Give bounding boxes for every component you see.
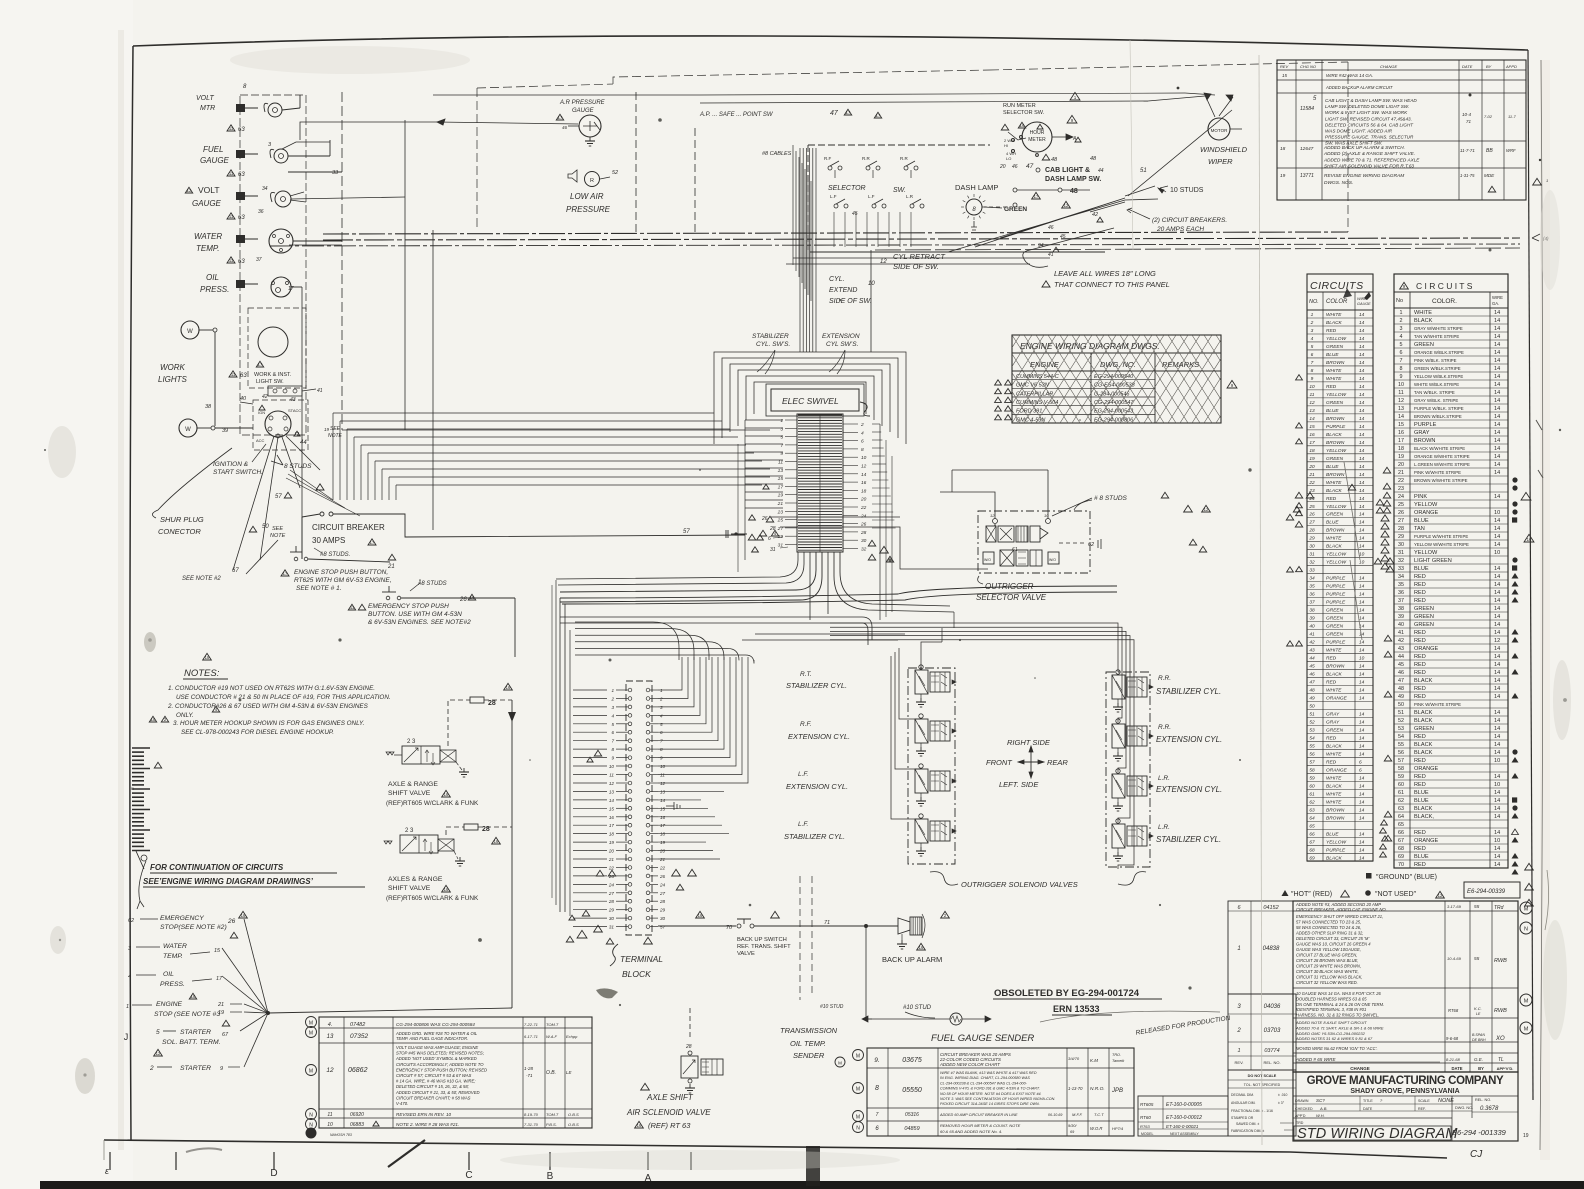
- svg-text:70: 70: [726, 925, 733, 931]
- svg-text:SELECTOR SW.: SELECTOR SW.: [1003, 110, 1045, 116]
- svg-text:R.T.: R.T.: [800, 671, 812, 678]
- wire bundle to right valve box: [830, 623, 1118, 672]
- svg-text:11: 11: [778, 460, 783, 466]
- svg-text:SIDE OF SW.: SIDE OF SW.: [829, 298, 872, 305]
- svg-text:CHANGE: CHANGE: [1380, 64, 1397, 69]
- svg-text:37: 37: [1309, 600, 1315, 606]
- svg-text:ORANGE: ORANGE: [1414, 646, 1439, 652]
- svg-text:PRESS.: PRESS.: [160, 981, 185, 988]
- svg-text:WIPER: WIPER: [1208, 157, 1233, 166]
- RT stabilizer valve: [915, 670, 928, 694]
- backup alarm: [898, 918, 910, 934]
- svg-text:REL. NO.: REL. NO.: [1263, 1060, 1280, 1065]
- svg-text:20: 20: [1308, 464, 1315, 470]
- svg-text:28: 28: [685, 1044, 692, 1050]
- svg-text:50: 50: [1398, 702, 1404, 708]
- svg-text:52: 52: [1398, 718, 1404, 724]
- svg-text:8: 8: [861, 447, 864, 453]
- svg-text:PINK W/WHITE STRIPE: PINK W/WHITE STRIPE: [1414, 702, 1461, 707]
- svg-text:31: 31: [1398, 550, 1404, 556]
- triangles row 22-24 region: [596, 870, 603, 876]
- svg-text:GREEN: GREEN: [1414, 606, 1434, 612]
- svg-text:OUTRIGGER SOLENOID VALVES: OUTRIGGER SOLENOID VALVES: [961, 880, 1078, 889]
- svg-text:FABRICATION DIM. ±: FABRICATION DIM. ±: [1231, 1129, 1264, 1133]
- svg-text:R: R: [131, 786, 134, 791]
- svg-text:W: W: [187, 329, 193, 335]
- svg-text:14: 14: [1494, 542, 1500, 548]
- svg-text:53: 53: [1309, 728, 1315, 734]
- svg-text:WHITE: WHITE: [1326, 751, 1342, 757]
- vertical bundle above swivel: [799, 148, 801, 352]
- svg-text:CYL SW’S.: CYL SW’S.: [826, 341, 859, 348]
- svg-text:6: 6: [768, 536, 771, 542]
- circuits table 2 rows: [1394, 315, 1508, 317]
- svg-text:1: 1: [611, 688, 614, 693]
- svg-text:04859: 04859: [904, 1126, 919, 1132]
- svg-text:R.R.: R.R.: [1158, 675, 1171, 682]
- svg-text:56: 56: [1309, 751, 1315, 757]
- svg-text:LIGHT SW. REVISED CIRCUIT 47,4: LIGHT SW. REVISED CIRCUIT 47,45&43.: [1325, 116, 1412, 121]
- svg-text:16: 16: [1527, 537, 1532, 542]
- svg-text:20: 20: [999, 164, 1006, 170]
- svg-text:22: 22: [608, 866, 615, 871]
- svg-text:N: N: [1524, 927, 1528, 933]
- svg-text:ADDED 70 & 71 SHKT. AXLE & SR-: ADDED 70 & 71 SHKT. AXLE & SR-1 & 66 WIR…: [1295, 1025, 1384, 1030]
- svg-text:BLUE: BLUE: [1414, 518, 1429, 524]
- svg-text:7: 7: [611, 739, 614, 744]
- svg-text:BROWN: BROWN: [1326, 416, 1345, 422]
- svg-text:60: 60: [1398, 782, 1404, 788]
- svg-text:14: 14: [1359, 712, 1365, 718]
- svg-text:VOLT: VOLT: [196, 95, 214, 102]
- svg-text:R.R: R.R: [862, 156, 871, 161]
- svg-text:FUEL GAUGE SENDER: FUEL GAUGE SENDER: [931, 1033, 1034, 1044]
- svg-text:47: 47: [1026, 163, 1034, 170]
- horizontal bus above valves: [560, 616, 862, 618]
- svg-text:13: 13: [778, 468, 784, 474]
- svg-text:CYL RETRACT: CYL RETRACT: [893, 252, 946, 261]
- svg-text:14: 14: [1494, 422, 1500, 428]
- svg-text:TRO.: TRO.: [1112, 1053, 1121, 1057]
- svg-text:12: 12: [156, 1051, 161, 1056]
- svg-text:14: 14: [1359, 847, 1365, 853]
- svg-text:65: 65: [1398, 822, 1404, 828]
- corner curve bundle: [575, 622, 679, 660]
- svg-text:CIRCUIT 29 WHITE WAS B: CIRCUIT 29 WHITE WAS BROWN,: [1296, 964, 1361, 969]
- svg-text:BLUE: BLUE: [1414, 790, 1429, 796]
- svg-text:14: 14: [1494, 574, 1500, 580]
- svg-text:M: M: [1524, 1027, 1529, 1033]
- svg-text:MDE: MDE: [1484, 173, 1495, 178]
- svg-text:7-22-71: 7-22-71: [524, 1022, 538, 1027]
- svg-text:69: 69: [1309, 855, 1315, 861]
- svg-text:TAN W/WHITE STRIPE: TAN W/WHITE STRIPE: [1414, 334, 1459, 339]
- svg-text:14: 14: [1494, 406, 1500, 412]
- svg-text:62: 62: [128, 918, 134, 924]
- svg-text:8: 8: [875, 1085, 879, 1092]
- svg-text:57: 57: [660, 925, 666, 930]
- svg-text:14: 14: [1494, 790, 1500, 796]
- title block frame: [1293, 1072, 1518, 1141]
- svg-text:11: 11: [609, 773, 614, 778]
- svg-text:17: 17: [660, 823, 666, 828]
- wires from selector valve to top: [940, 470, 1048, 519]
- svg-text:21: 21: [1308, 472, 1315, 478]
- svg-text:PURPLE: PURPLE: [1326, 424, 1346, 430]
- svg-text:IN ENG. WIRING DIAG. CHART, C: IN ENG. WIRING DIAG. CHART, CL-294-00058…: [940, 1076, 1030, 1080]
- svg-text:17: 17: [258, 362, 263, 367]
- svg-text:PINK W/WHITE STRIPE: PINK W/WHITE STRIPE: [1414, 470, 1461, 475]
- svg-text:24: 24: [1398, 494, 1404, 500]
- left long rails into swivel nest: [333, 412, 714, 414]
- svg-text:BLACK: BLACK: [1414, 678, 1433, 684]
- gauge supply studs: [236, 104, 245, 112]
- svg-text:27: 27: [1398, 518, 1404, 524]
- svg-text:17: 17: [1309, 440, 1315, 446]
- svg-text:62: 62: [1088, 542, 1094, 548]
- svg-text:8: 8: [1400, 366, 1403, 372]
- svg-text:2 3: 2 3: [407, 739, 416, 745]
- svg-text:ENGINE STOP PUSH BUTTON,: ENGINE STOP PUSH BUTTON,: [294, 569, 388, 576]
- svg-text:DWGS. NOS.: DWGS. NOS.: [1324, 180, 1353, 186]
- svg-text:B: B: [547, 1171, 554, 1182]
- terminal block pins and wires: [628, 688, 632, 692]
- svg-text:-71: -71: [526, 1073, 533, 1078]
- svg-text:STABILIZER: STABILIZER: [752, 333, 789, 340]
- svg-text:ADDED NEW COLOR CHART: ADDED NEW COLOR CHART: [939, 1062, 1000, 1067]
- svg-text:3/4/70: 3/4/70: [1068, 1056, 1080, 1061]
- svg-text:BROWN: BROWN: [1326, 472, 1345, 478]
- svg-text:K.M: K.M: [1090, 1058, 1098, 1063]
- svg-text:WORK: WORK: [160, 363, 186, 372]
- sheet border top edge: [133, 36, 1528, 50]
- svg-text:ERN 13533: ERN 13533: [1053, 1004, 1100, 1014]
- svg-text:ORANGE: ORANGE: [1414, 838, 1439, 844]
- svg-text:15: 15: [778, 476, 784, 482]
- svg-text:40: 40: [1309, 624, 1315, 630]
- svg-text:14: 14: [1359, 839, 1365, 845]
- svg-text:14: 14: [1494, 670, 1500, 676]
- wires below swivel curving left: [560, 552, 816, 592]
- svg-text:ANGULAR DIM.: ANGULAR DIM.: [1231, 1101, 1256, 1105]
- svg-text:NOTE: NOTE: [328, 433, 343, 439]
- svg-text:1. CONDUCTOR #19 NOT USED ON R: 1. CONDUCTOR #19 NOT USED ON RT62S WITH …: [168, 685, 375, 692]
- svg-text:28: 28: [1308, 528, 1315, 534]
- svg-text:#8 STUDS: #8 STUDS: [418, 581, 447, 587]
- svg-text:CHECKED: CHECKED: [1295, 1107, 1313, 1111]
- svg-text:53: 53: [1398, 726, 1404, 732]
- svg-text:CAB LIGHT & DASH LAMP SW. WAS: CAB LIGHT & DASH LAMP SW. WAS HEAD: [1325, 98, 1417, 103]
- svg-text:CIRCUIT 30 BLACK WAS W: CIRCUIT 30 BLACK WAS WHITE,: [1296, 969, 1359, 974]
- svg-text:PRESSURE GAUGE. TRANS. SELECTU: PRESSURE GAUGE. TRANS. SELECTUR: [1325, 135, 1414, 140]
- svg-text:54: 54: [1309, 736, 1315, 742]
- svg-text:RED: RED: [1414, 782, 1426, 788]
- svg-text:5: 5: [1311, 344, 1314, 350]
- long 57 wire to swivel: [757, 535, 764, 540]
- svg-text:27: 27: [659, 891, 666, 896]
- svg-text:4: 4: [861, 430, 864, 436]
- gauge wires to bus: [288, 155, 330, 157]
- svg-text:10: 10: [1359, 560, 1365, 566]
- svg-text:TOM.T: TOM.T: [546, 1112, 559, 1117]
- svg-text:16: 16: [637, 1123, 642, 1128]
- elec swivel terminal strip: [797, 414, 843, 552]
- svg-text:FRONT: FRONT: [986, 758, 1013, 767]
- svg-text:SEE CL-978-000243 FOR DIESEL: SEE CL-978-000243 FOR DIESEL ENGINE HOOK…: [181, 729, 334, 736]
- svg-text:30 AMPS: 30 AMPS: [312, 536, 345, 545]
- svg-text:TEMP.: TEMP.: [196, 244, 219, 253]
- svg-text:DRAWN: DRAWN: [1295, 1099, 1309, 1103]
- svg-text:SHIFT VALVE: SHIFT VALVE: [388, 790, 431, 797]
- svg-text:RIGHT SIDE: RIGHT SIDE: [1007, 738, 1051, 747]
- svg-text:SEE NOTE # 1.: SEE NOTE # 1.: [296, 585, 342, 592]
- svg-text:RED: RED: [1414, 598, 1426, 604]
- svg-text:2: 2: [659, 697, 663, 702]
- svg-text:14: 14: [1359, 512, 1365, 518]
- svg-text:BLACK,: BLACK,: [1414, 814, 1434, 820]
- svg-text:RUN METER: RUN METER: [1003, 103, 1036, 109]
- svg-text:55: 55: [1309, 744, 1315, 750]
- svg-text:5: 5: [780, 435, 783, 441]
- svg-text:36: 36: [1309, 592, 1315, 598]
- svg-text:11: 11: [1398, 390, 1404, 396]
- svg-text:10: 10: [1494, 782, 1500, 788]
- svg-text:63: 63: [238, 215, 245, 221]
- svg-text:37: 37: [256, 257, 262, 263]
- svg-text:0.3678: 0.3678: [1480, 1106, 1499, 1112]
- svg-text:63: 63: [238, 259, 245, 265]
- svg-text:AXLES & RANGE: AXLES & RANGE: [388, 876, 443, 883]
- svg-text:45: 45: [1398, 662, 1404, 668]
- svg-text:12: 12: [1438, 893, 1443, 898]
- svg-text:MOTOR: MOTOR: [1211, 128, 1228, 133]
- svg-text:YELLOW: YELLOW: [1326, 336, 1346, 342]
- svg-text:14: 14: [1359, 855, 1365, 861]
- svg-text:8: 8: [660, 747, 663, 752]
- svg-text:SEE NOTE #2: SEE NOTE #2: [182, 576, 221, 582]
- svg-text:14: 14: [609, 798, 615, 803]
- svg-text:14: 14: [1494, 830, 1500, 836]
- svg-text:M: M: [309, 1069, 313, 1075]
- svg-text:14: 14: [1359, 424, 1365, 430]
- svg-text:18: 18: [1398, 446, 1404, 452]
- svg-text:BLACK W/WHITE STRIPE: BLACK W/WHITE STRIPE: [1414, 446, 1465, 451]
- svg-text:LIGHTS: LIGHTS: [158, 375, 188, 384]
- 10 studs fan: [1125, 186, 1158, 200]
- svg-text:63: 63: [1398, 806, 1404, 812]
- svg-text:GREEN: GREEN: [1414, 622, 1434, 628]
- svg-text:8 STUDS: 8 STUDS: [284, 463, 312, 470]
- svg-text:44: 44: [300, 440, 307, 446]
- svg-text:14: 14: [1494, 534, 1500, 540]
- svg-text:65: 65: [1309, 823, 1315, 829]
- svg-text:DASH LAMP: DASH LAMP: [955, 183, 998, 192]
- svg-text:GAUGE WAS YELLOW 10GAUGE,: GAUGE WAS YELLOW 10GAUGE,: [1296, 947, 1361, 952]
- svg-text:17: 17: [558, 115, 563, 120]
- svg-text:WHITE: WHITE: [1326, 799, 1342, 805]
- svg-text:HP7/4: HP7/4: [1112, 1126, 1124, 1131]
- drawn/checked rows: [1293, 1103, 1472, 1105]
- svg-text:16: 16: [609, 815, 615, 820]
- svg-text:49: 49: [1398, 694, 1404, 700]
- released for production stamp: [1135, 1015, 1231, 1037]
- svg-text:M: M: [309, 1031, 313, 1037]
- svg-text:27: 27: [1308, 520, 1315, 526]
- svg-text:2: 2: [1400, 318, 1403, 324]
- svg-text:± 3°: ± 3°: [1278, 1101, 1285, 1105]
- svg-text:7: 7: [1400, 358, 1403, 364]
- svg-text:06920: 06920: [350, 1112, 364, 1118]
- svg-text:46: 46: [1048, 225, 1054, 231]
- svg-text:14: 14: [660, 798, 666, 803]
- svg-text:FRACTIONAL DIM. ± - 1/16: FRACTIONAL DIM. ± - 1/16: [1231, 1109, 1273, 1113]
- svg-text:14: 14: [1494, 342, 1500, 348]
- svg-text:ET-160-0-00005: ET-160-0-00005: [1166, 1102, 1202, 1108]
- svg-text:16: 16: [470, 595, 475, 600]
- svg-text:GAUGE: GAUGE: [1357, 302, 1371, 306]
- svg-text:7-02: 7-02: [1484, 114, 1493, 119]
- svg-text:BLUE: BLUE: [1326, 831, 1339, 837]
- svg-text:XO: XO: [1495, 1036, 1505, 1042]
- svg-text:34: 34: [1309, 576, 1315, 582]
- svg-text:11: 11: [231, 372, 236, 377]
- svg-text:STOP(SEE NOTE #2): STOP(SEE NOTE #2): [160, 924, 227, 931]
- svg-text:14: 14: [1359, 799, 1365, 805]
- svg-text:OBSOLETED BY EG-294-001724: OBSOLETED BY EG-294-001724: [994, 988, 1140, 999]
- svg-text:14: 14: [1359, 368, 1365, 374]
- svg-text:42: 42: [1398, 638, 1404, 644]
- svg-text:RED: RED: [1414, 630, 1426, 636]
- svg-text:NO.58 OF HOUR METER. NOTE #4: NO.58 OF HOUR METER. NOTE #4 DOES & EXIT…: [940, 1092, 1042, 1096]
- svg-text:DASH LAMP SW.: DASH LAMP SW.: [1045, 176, 1101, 183]
- engine stop push button: [290, 551, 302, 553]
- work light wires: [214, 332, 216, 426]
- svg-text:14: 14: [1494, 518, 1500, 524]
- bus from verticals to solenoid lines: [682, 645, 692, 657]
- svg-text:42: 42: [1092, 212, 1098, 218]
- svg-text:28: 28: [860, 530, 867, 536]
- svg-text:14: 14: [1494, 374, 1500, 380]
- svg-text:14: 14: [1359, 783, 1365, 789]
- svg-text:14: 14: [1359, 672, 1365, 678]
- swivel bottom curves to right: [834, 552, 954, 612]
- svg-text:GRAY W/WHITE STRIPE: GRAY W/WHITE STRIPE: [1414, 326, 1463, 331]
- svg-text:MOVED WIRE No.62 FROM ’IGN’: MOVED WIRE No.62 FROM ’IGN’ TO ’ACC’.: [1296, 1046, 1378, 1051]
- vertical runs from top bus down: [870, 250, 872, 352]
- svg-text:#10 STUD: #10 STUD: [820, 1004, 844, 1010]
- svg-text:ADDED # 65 WIRE: ADDED # 65 WIRE: [1295, 1057, 1337, 1062]
- svg-text:LEFT. SIDE: LEFT. SIDE: [999, 780, 1039, 789]
- svg-text:PRESS.: PRESS.: [200, 285, 229, 294]
- svg-text:GREEN: GREEN: [1326, 632, 1344, 638]
- smudge marks: [596, 988, 618, 998]
- svg-text:14: 14: [1359, 744, 1365, 750]
- bottom scan black band: [40, 1181, 1584, 1189]
- big dashed enclosure top: [477, 70, 990, 228]
- svg-text:14: 14: [1359, 728, 1365, 734]
- svg-text:WORK & INST.: WORK & INST.: [254, 372, 292, 378]
- svg-text:6-17-71: 6-17-71: [524, 1034, 538, 1039]
- svg-text:ADDED BACK UP ALARM & SWITCH.: ADDED BACK UP ALARM & SWITCH.: [1323, 145, 1405, 150]
- svg-text:BLUE: BLUE: [1414, 798, 1429, 804]
- svg-text:14: 14: [1494, 774, 1500, 780]
- svg-text:BLACK: BLACK: [1326, 488, 1343, 494]
- svg-text:T.C.T: T.C.T: [1094, 1112, 1104, 1117]
- svg-text:29: 29: [659, 908, 666, 913]
- svg-text:PURPLE: PURPLE: [1326, 584, 1346, 590]
- svg-text:14: 14: [1494, 390, 1500, 396]
- svg-text:14: 14: [1359, 640, 1365, 646]
- svg-text:32: 32: [1398, 558, 1404, 564]
- wire up to 28 resistor (upper): [448, 700, 470, 746]
- svg-text:04152: 04152: [1263, 905, 1278, 911]
- svg-text:11: 11: [350, 605, 355, 610]
- svg-text:BLACK: BLACK: [1414, 742, 1433, 748]
- svg-text:14: 14: [1494, 734, 1500, 740]
- svg-text:63: 63: [238, 127, 245, 133]
- circled M symbols: [853, 1050, 864, 1061]
- sheet border left edge: [130, 46, 133, 1141]
- svg-text:CL-294-000238 & CL-294-000547: CL-294-000238 & CL-294-000547 WAS CL-294…: [940, 1081, 1028, 1085]
- svg-text:14: 14: [1359, 608, 1365, 614]
- svg-text:67: 67: [232, 568, 239, 574]
- svg-text:59: 59: [1309, 775, 1315, 781]
- svg-text:14: 14: [1359, 520, 1365, 526]
- svg-text:″HOT″ (RED): ″HOT″ (RED): [1291, 891, 1332, 898]
- svg-text:14: 14: [1494, 366, 1500, 372]
- svg-text:12: 12: [861, 464, 867, 470]
- svg-text:STARTER: STARTER: [180, 1065, 211, 1072]
- svg-text:EXTEND: EXTEND: [829, 287, 857, 294]
- svg-text:13: 13: [1398, 406, 1404, 412]
- svg-text:6: 6: [861, 439, 864, 445]
- svg-text:GREEN: GREEN: [1326, 608, 1344, 614]
- svg-text:VALVE: VALVE: [737, 951, 755, 957]
- svg-text:RT68: RT68: [1448, 1008, 1459, 1013]
- svg-text:17: 17: [1398, 438, 1404, 444]
- svg-text:10: 10: [861, 455, 867, 461]
- svg-text:19: 19: [609, 840, 615, 845]
- svg-text:14: 14: [1494, 846, 1500, 852]
- svg-text:BROWN: BROWN: [1414, 438, 1435, 444]
- right vertical from solenoid to senders: [1069, 790, 1071, 1000]
- svg-text:GREEN: GREEN: [1414, 614, 1434, 620]
- svg-text:ADDED GMC Y6.53N-CG-294-000232: ADDED GMC Y6.53N-CG-294-000232: [1295, 1031, 1366, 1036]
- svg-text:BROWN: BROWN: [1326, 360, 1345, 366]
- svg-text:03774: 03774: [1264, 1048, 1279, 1054]
- svg-text:CIRCUIT 27 BLUE WAS GREEN,: CIRCUIT 27 BLUE WAS GREEN,: [1296, 953, 1357, 958]
- svg-text:ORANGE: ORANGE: [1326, 696, 1348, 702]
- svg-text:14: 14: [1359, 584, 1365, 590]
- svg-text:WIRE: WIRE: [1492, 295, 1503, 300]
- svg-text:9: 9: [660, 756, 663, 761]
- svg-text:RED: RED: [1414, 758, 1426, 764]
- svg-text:14: 14: [1359, 544, 1365, 550]
- svg-text:20: 20: [608, 849, 615, 854]
- svg-text:10: 10: [1398, 382, 1404, 388]
- svg-text:44: 44: [1098, 168, 1104, 174]
- svg-text:14: 14: [1359, 528, 1365, 534]
- pencil slash mark: [388, 1140, 425, 1167]
- svg-text:3: 3: [611, 705, 614, 710]
- svg-text:ORANGE: ORANGE: [1326, 767, 1348, 773]
- svg-text:REV.: REV.: [1235, 1060, 1244, 1065]
- svg-text:25: 25: [1308, 504, 1315, 510]
- svg-text:67: 67: [1398, 838, 1404, 844]
- svg-text:14: 14: [1494, 630, 1500, 636]
- svg-text:4: 4: [611, 713, 614, 718]
- svg-text:06883: 06883: [350, 1122, 364, 1128]
